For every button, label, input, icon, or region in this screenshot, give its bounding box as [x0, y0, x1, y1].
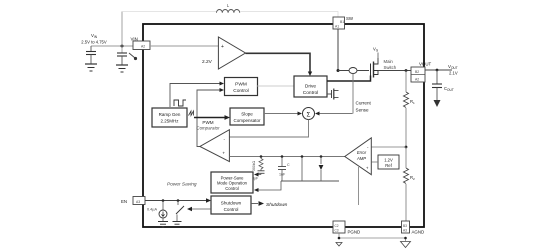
svg-text:L: L — [227, 3, 230, 8]
svg-text:A2: A2 — [415, 78, 419, 82]
label 2.2V reference — [202, 59, 213, 65]
svg-text:Main: Main — [384, 59, 394, 64]
pin AGND — [402, 221, 410, 233]
svg-text:PWM: PWM — [235, 81, 247, 87]
label Current Sense — [356, 101, 372, 113]
svg-text:VOUT: VOUT — [448, 64, 458, 70]
svg-text:1.2V: 1.2V — [384, 157, 393, 162]
svg-text:+: + — [366, 166, 369, 171]
wire R1 to FB node — [405, 108, 407, 147]
ground for current source — [158, 222, 168, 227]
transistor low-side switch — [327, 89, 339, 100]
wire comparator output to Drive Control — [246, 53, 313, 76]
svg-text:A3: A3 — [136, 200, 140, 204]
wire baseline to Power-Save control — [254, 181, 281, 192]
capacitor C_in1 — [86, 46, 96, 64]
block Shutdown Control — [211, 196, 251, 214]
wire switch node to current sense bubble — [338, 70, 349, 72]
wire from input node up to inductor — [122, 12, 216, 47]
wire SW pin into switch node — [337, 29, 339, 71]
wire from inductor to SW pin — [240, 12, 338, 18]
IC boundary box — [143, 24, 424, 227]
label Main Switch — [384, 59, 397, 70]
node switch node junction — [337, 69, 340, 72]
block 1.2V reference — [378, 155, 399, 169]
ground for C_in2 — [116, 65, 128, 72]
svg-text:Mode Operation: Mode Operation — [217, 181, 248, 186]
svg-text:Slope: Slope — [241, 112, 253, 117]
pin VOUT — [411, 67, 425, 82]
wire comp branch 4 with down arrow — [319, 157, 324, 182]
svg-text:Power-Save: Power-Save — [221, 175, 244, 180]
svg-text:C2: C2 — [335, 224, 339, 228]
svg-text:Comparator: Comparator — [196, 126, 220, 131]
node feedback tap on output rail — [405, 69, 408, 72]
pin SW — [333, 17, 345, 29]
svg-text:Sense: Sense — [356, 108, 369, 113]
svg-text:A3: A3 — [403, 229, 407, 233]
svg-text:SW: SW — [346, 16, 354, 21]
svg-text:Error: Error — [357, 150, 367, 155]
junction node at second input cap — [121, 45, 124, 48]
resistor R1 — [404, 71, 416, 108]
svg-text:EN: EN — [121, 199, 127, 204]
node dot ground bus right — [404, 237, 407, 240]
node FB junction — [405, 146, 408, 149]
pin VIN — [133, 41, 150, 50]
clock square wave icon — [174, 100, 186, 106]
wire current sense into summing node — [315, 112, 353, 116]
resistor R2 — [404, 147, 416, 184]
label VIN source voltage — [81, 33, 107, 45]
wire current sense tap — [352, 74, 354, 114]
svg-text:R1: R1 — [410, 99, 415, 105]
compensation resistor Rc — [252, 157, 263, 172]
svg-text:Ref: Ref — [385, 163, 392, 168]
label PGND — [348, 230, 361, 235]
svg-text:PWM: PWM — [202, 120, 213, 125]
wire comp branch into Power-Save control — [254, 173, 261, 177]
wire error amp bottom input stub — [358, 167, 360, 205]
block Power-Save Mode Operation Control — [211, 172, 253, 193]
wire COMP rail (error amp output to PWM comparator) — [230, 156, 345, 158]
svg-text:300kΩ: 300kΩ — [252, 161, 256, 172]
label SW — [346, 16, 354, 21]
comparator U1 (input voltage comparator) — [218, 37, 245, 69]
svg-text:AMP: AMP — [356, 156, 366, 161]
wire summing node to PWM comparator input — [230, 120, 309, 138]
label VG gate voltage — [373, 47, 379, 59]
svg-text:PGND: PGND — [348, 230, 361, 235]
svg-text:Power Saving: Power Saving — [167, 182, 197, 188]
svg-text:Control: Control — [225, 186, 239, 191]
wire comp network baseline — [281, 180, 339, 182]
label PWM Comparator — [196, 120, 220, 131]
svg-text:+: + — [222, 151, 225, 156]
svg-text:VIN: VIN — [131, 37, 138, 42]
svg-text:Ramp Gen: Ramp Gen — [159, 112, 181, 117]
svg-text:VOUT: VOUT — [419, 62, 432, 67]
wire VOUT pin to output node — [425, 69, 452, 71]
svg-text:B1: B1 — [340, 20, 344, 24]
ground arrow for C_OUT — [434, 100, 441, 107]
label VOUT pin — [419, 62, 432, 67]
ground for C_in1 — [85, 64, 97, 71]
svg-text:A1: A1 — [335, 25, 339, 29]
svg-text:2.25MHz: 2.25MHz — [160, 119, 179, 124]
wire gate drive bus — [327, 76, 371, 82]
svg-text:R2: R2 — [410, 175, 415, 181]
svg-text:Control: Control — [224, 207, 239, 212]
wire PWM Control to Drive Control — [257, 85, 294, 87]
wire R2 to AGND pin — [405, 184, 407, 221]
ground symbol below PGND — [336, 243, 342, 247]
svg-text:A2: A2 — [141, 45, 145, 49]
label Power Saving — [167, 182, 197, 188]
svg-text:C: C — [287, 163, 290, 167]
wire EN to Shutdown Control — [145, 198, 211, 202]
capacitor C_in2 — [117, 46, 127, 65]
svg-text:AGND: AGND — [412, 230, 425, 235]
node dot ground bus left — [338, 237, 341, 240]
compensation capacitor Cc2 — [278, 157, 290, 182]
node output cap junction — [436, 69, 439, 72]
pin EN — [133, 197, 145, 205]
node dot EN wire 2 — [177, 199, 180, 202]
PWM comparator — [200, 130, 230, 162]
ground symbol below AGND — [401, 242, 411, 248]
block Drive Control — [294, 76, 327, 97]
svg-text:Compensator: Compensator — [233, 118, 261, 123]
label VIN pin — [131, 37, 138, 42]
summing node sigma — [303, 108, 315, 120]
svg-text:Σ: Σ — [307, 111, 311, 118]
svg-text:B2: B2 — [415, 70, 419, 74]
wire Shutdown Control to discharge switch — [187, 207, 211, 211]
sawtooth icon at ramp output — [189, 111, 194, 116]
wire VIN pin to comparator — [150, 45, 218, 47]
svg-text:1nF: 1nF — [279, 173, 286, 177]
wire bubble to rectifier switch — [357, 70, 369, 72]
svg-text:Switch: Switch — [384, 65, 397, 70]
wire Slope Compensator to summing node — [264, 112, 302, 116]
ground for discharge switch — [173, 222, 182, 225]
svg-text:COUT: COUT — [444, 86, 454, 92]
wire PGND to AGND external ground bus — [339, 233, 406, 241]
wire FB to error amp — [372, 146, 407, 148]
svg-text:VG: VG — [373, 47, 379, 53]
wire VREF to error amp — [372, 161, 379, 163]
svg-text:Control: Control — [233, 88, 248, 94]
svg-text:2.5V to 4.75V: 2.5V to 4.75V — [81, 40, 107, 45]
svg-text:C3: C3 — [335, 229, 339, 233]
wire clock from Ramp Gen to PWM Control — [170, 82, 224, 108]
transistor rectifier switch — [371, 58, 412, 78]
arrow wire Ramp Gen to Slope Compensator — [194, 115, 230, 120]
label VOUT voltage — [448, 64, 458, 76]
node dots on COMP rail — [260, 155, 323, 158]
wire PWM comparator output to PWM Control — [197, 88, 224, 147]
wire shutdown output arrow — [251, 201, 288, 208]
capacitor C_OUT — [432, 70, 454, 100]
shutdown discharge switch — [176, 201, 184, 222]
svg-text:B3: B3 — [403, 224, 407, 228]
error amplifier — [345, 138, 372, 175]
svg-text:Drive: Drive — [305, 84, 317, 90]
inductor L — [217, 3, 240, 13]
wire comp branch 3 — [301, 157, 303, 182]
compensation capacitor Cc1 — [250, 169, 265, 181]
current sense element bubble — [349, 68, 357, 74]
svg-text:Control: Control — [303, 90, 318, 96]
svg-text:2.2V: 2.2V — [202, 59, 213, 65]
svg-text:2.1V: 2.1V — [449, 71, 458, 76]
svg-text:Shutdown: Shutdown — [266, 202, 288, 208]
svg-text:+: + — [221, 44, 224, 50]
label AGND — [412, 230, 425, 235]
block Slope Compensator — [230, 108, 264, 125]
node VIN input rail — [91, 45, 134, 47]
block Ramp Gen 2.25MHz — [152, 108, 187, 127]
svg-text:Current: Current — [356, 101, 372, 106]
svg-text:Shutdown: Shutdown — [221, 201, 242, 206]
current source pulldown — [147, 201, 167, 222]
svg-text:0.4µA: 0.4µA — [147, 208, 157, 212]
label EN — [121, 199, 127, 204]
pin PGND — [333, 221, 345, 233]
current arrow mark below VIN pin — [129, 53, 137, 60]
block PWM Control — [225, 78, 258, 96]
svg-text:VIN: VIN — [91, 33, 98, 39]
node dot EN wire 1 — [162, 199, 165, 202]
